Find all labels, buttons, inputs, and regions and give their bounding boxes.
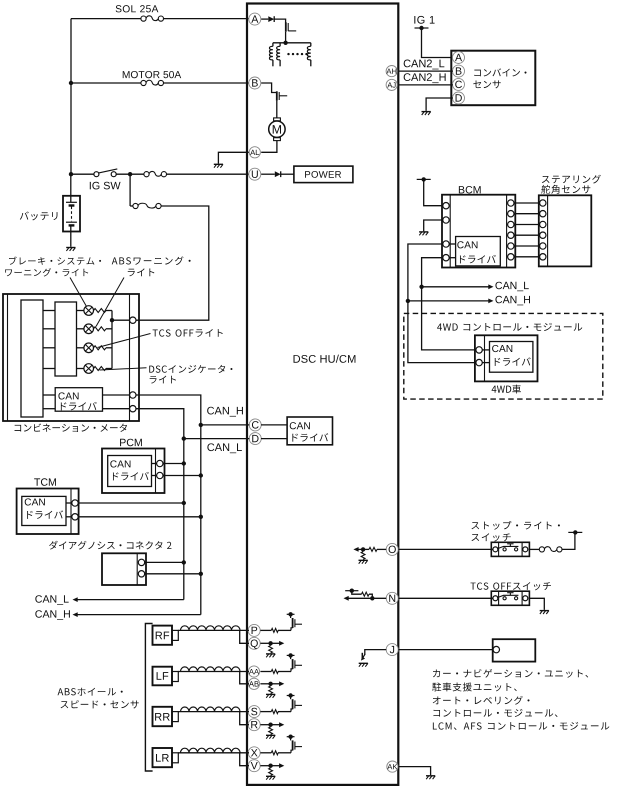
wire coil return RR bbox=[240, 712, 249, 725]
wire AK to ground bbox=[398, 767, 430, 776]
wire meter CANH stub bbox=[43, 394, 55, 396]
wire TCM driver stubs bbox=[66, 502, 72, 504]
label CAN (U2) bbox=[290, 422, 310, 429]
label CAN (TCM) bbox=[25, 498, 45, 505]
label LF bbox=[157, 672, 169, 680]
arrow CAN_L exit bbox=[73, 597, 78, 602]
ground LF bias bbox=[266, 693, 275, 695]
wire fuse to power bbox=[562, 533, 575, 549]
wire lamp feed bbox=[43, 347, 55, 349]
fuse MOTOR 50A bbox=[141, 80, 146, 85]
wire CAN_H exit bbox=[76, 614, 201, 616]
label CAN bbox=[58, 392, 78, 399]
label RF bbox=[156, 632, 169, 640]
label IG SW bbox=[90, 182, 121, 190]
wire BCM to steering sensor 6 bbox=[514, 256, 539, 258]
leader brake light bbox=[70, 278, 87, 307]
sensor box LF bbox=[153, 667, 173, 686]
junction CANL arrow bbox=[419, 285, 423, 289]
label ワーニング・ライト bbox=[5, 268, 88, 276]
node D bbox=[249, 433, 261, 445]
wire N pull-up to line bbox=[369, 594, 372, 598]
wire SOL 25A feed bbox=[71, 18, 141, 20]
wire C to CAN driver bbox=[261, 424, 287, 426]
node X bbox=[248, 747, 260, 759]
arrow CAN_H exit bbox=[73, 612, 78, 617]
label ドライバ bbox=[61, 402, 97, 410]
wire BCM to steering sensor 2 bbox=[514, 213, 539, 215]
TCM CAN driver box bbox=[22, 496, 66, 525]
node AL bbox=[249, 147, 260, 158]
meter pin CANL bbox=[130, 406, 136, 412]
wire 4WD driver stubs bbox=[483, 349, 490, 351]
steering angle sensor box bbox=[539, 195, 592, 266]
wire CAN_H arrow right bbox=[408, 300, 489, 302]
junction LR return bbox=[268, 764, 272, 768]
resistor RF bias bbox=[269, 646, 273, 654]
wire RR input bbox=[260, 711, 271, 713]
wire LF to FET bbox=[278, 671, 291, 673]
ground J driver bbox=[359, 662, 368, 664]
node O bbox=[386, 543, 398, 555]
leader TCS OFF light bbox=[98, 334, 151, 348]
BCM right pin 1 bbox=[508, 200, 514, 206]
label ストップ・ライト・ bbox=[471, 521, 559, 530]
power tap stop light bbox=[568, 531, 582, 533]
DSC HU/CM module box bbox=[247, 4, 398, 785]
resistor LR input bbox=[271, 751, 278, 755]
label ステアリング舵角センサ bbox=[542, 175, 601, 184]
node Q bbox=[248, 637, 260, 649]
wire PCM to CANH bbox=[163, 475, 201, 477]
4WD dashed box bbox=[404, 313, 603, 399]
wire module to lamp bbox=[77, 328, 84, 330]
sensor pin B bbox=[453, 65, 465, 77]
junction LF return bbox=[268, 682, 272, 686]
node B bbox=[249, 77, 261, 89]
steering sensor pin 2 bbox=[540, 211, 546, 217]
resistor O bias bbox=[361, 552, 365, 560]
node AJ bbox=[386, 79, 397, 90]
wire BCM to steering sensor 3 bbox=[514, 224, 539, 226]
BCM right pin 3 bbox=[508, 221, 514, 227]
wire coil base RR bbox=[178, 711, 249, 713]
resistor lamp ABS warning bbox=[94, 327, 107, 331]
meter lamp module box bbox=[55, 302, 77, 376]
wire PCM driver stubs bbox=[152, 463, 157, 465]
label DSC HU/CM bbox=[294, 355, 356, 363]
wire module to lamp bbox=[77, 310, 84, 312]
wire battery to ground bbox=[70, 225, 72, 246]
transistor motor driver FET bbox=[276, 91, 278, 100]
fuse meter IG bbox=[133, 203, 138, 208]
junction CANH at C line bbox=[199, 423, 203, 427]
lamp DSC indicator light bbox=[84, 364, 94, 374]
lamp brake system warning light bbox=[84, 306, 94, 316]
label 4WD車 bbox=[492, 385, 521, 394]
transistor LF driver bbox=[291, 669, 293, 672]
wire CAN_L arrow right bbox=[422, 286, 489, 288]
junction N bbox=[370, 596, 374, 600]
wire BCM CANH down bbox=[408, 244, 476, 363]
wire battery feed bbox=[70, 174, 72, 202]
BCM pin 1 bbox=[443, 203, 449, 209]
wire LF input bbox=[260, 671, 271, 673]
node U bbox=[249, 168, 261, 180]
lamp ABS warning light bbox=[84, 324, 94, 334]
transistor RR driver bbox=[291, 709, 293, 712]
PCM box bbox=[102, 449, 165, 494]
wire coil return LF bbox=[240, 672, 249, 684]
junction CANH arrow bbox=[406, 299, 410, 303]
BCM right pin 6 bbox=[508, 254, 514, 260]
wire lamp common rail bbox=[111, 311, 113, 369]
TCM pin 2 bbox=[72, 514, 78, 520]
label カー・ナビゲーション・ユニット、 bbox=[433, 669, 588, 678]
connector tab RR bbox=[172, 712, 178, 722]
wire FET to motor bbox=[276, 101, 278, 118]
junction PCM CANL bbox=[182, 461, 186, 465]
ground battery bbox=[66, 247, 75, 249]
wire B to motor FET bbox=[261, 83, 276, 93]
wire TCM to CANH bbox=[78, 516, 200, 518]
label PCM bbox=[120, 439, 142, 447]
BCM right pin 4 bbox=[508, 232, 514, 238]
wire node C line bbox=[201, 424, 250, 426]
wire LF return bbox=[260, 683, 270, 685]
inductor pickup coil LF bbox=[181, 667, 241, 672]
wire CAN_H meter to C bbox=[136, 395, 201, 615]
ground O bias bbox=[359, 559, 368, 561]
wire LR to FET bbox=[278, 752, 291, 754]
fuse IG main bbox=[144, 172, 149, 177]
wire CAN2_H bbox=[398, 84, 453, 86]
label ABSワーニング・ bbox=[112, 256, 191, 265]
label RR bbox=[155, 713, 170, 721]
meter pin lamps bbox=[130, 317, 136, 323]
junction on feed at MOTOR line bbox=[69, 81, 73, 85]
label CAN_H bbox=[207, 407, 243, 417]
ground BCM bbox=[419, 231, 428, 233]
resistor RF input bbox=[271, 628, 278, 632]
wire RF to FET bbox=[278, 629, 291, 631]
node S bbox=[248, 706, 260, 718]
label 駐車支援ユニット、 bbox=[432, 682, 517, 691]
node N bbox=[386, 592, 398, 604]
solenoid coil n bbox=[310, 43, 312, 47]
inductor pickup coil RR bbox=[181, 707, 241, 712]
wire module to lamp bbox=[77, 368, 84, 370]
ground TCS OFF switch bbox=[540, 610, 549, 612]
power tap BCM bbox=[417, 178, 431, 180]
steering sensor pin 5 bbox=[540, 243, 546, 249]
PCM pin 2 bbox=[157, 472, 163, 478]
BCM right pin 5 bbox=[508, 243, 514, 249]
wire LR sense arrow bbox=[271, 765, 280, 767]
sensor pin C bbox=[453, 78, 465, 90]
PCM CAN driver box bbox=[108, 456, 152, 487]
wire module to lamp bbox=[77, 347, 84, 349]
wire lamp feed bbox=[43, 328, 55, 330]
node A bbox=[249, 13, 261, 25]
sensor box LR bbox=[153, 748, 173, 767]
wire lamp feed bbox=[43, 310, 55, 312]
resistor LF bias bbox=[269, 686, 273, 694]
ground RR bias bbox=[266, 734, 275, 736]
wire coil base LR bbox=[178, 752, 249, 754]
node AH bbox=[386, 66, 397, 77]
steering sensor pin 1 bbox=[540, 200, 546, 206]
label ブレーキ・システム・ bbox=[9, 257, 101, 265]
label ドライバ (PCM) bbox=[113, 472, 149, 480]
label ドライバ (BCM) bbox=[460, 255, 496, 263]
label ドライバ (U2) bbox=[292, 433, 328, 441]
wire RF sense arrow bbox=[271, 642, 280, 644]
label ダイアグノシス・コネクタ 2 bbox=[49, 541, 171, 550]
BCM pin 4 bbox=[443, 255, 449, 261]
label CAN_L bbox=[207, 443, 241, 453]
wire motor to AL bbox=[261, 141, 277, 153]
label コントロール・モジュール、 bbox=[433, 709, 557, 717]
wire IG SW to fuse bbox=[116, 173, 144, 175]
label CAN_H exit bbox=[35, 610, 70, 620]
battery cell plates bbox=[66, 201, 77, 203]
junction O bias bbox=[361, 547, 365, 551]
wire BCM to ground bbox=[424, 220, 443, 231]
node V bbox=[248, 760, 260, 772]
junction diag CANH bbox=[199, 572, 203, 576]
wire LF sense arrow bbox=[271, 683, 280, 685]
sensor pin A bbox=[453, 52, 465, 64]
POWER box bbox=[294, 166, 353, 183]
wire BCM driver stubs bbox=[449, 243, 455, 245]
meter CAN driver box U1 bbox=[55, 388, 102, 412]
transistor solenoid driver FET bbox=[285, 22, 287, 31]
wire power to BCM bbox=[424, 179, 443, 205]
wire RR return bbox=[260, 724, 270, 726]
label ライト(2) bbox=[150, 376, 176, 384]
wire rail to meter pin bbox=[112, 319, 130, 321]
diode solenoid supply bbox=[268, 16, 274, 22]
node R bbox=[248, 719, 260, 731]
4WD pin 2 bbox=[476, 359, 482, 365]
ellipsis dots more coils bbox=[287, 53, 289, 55]
steering sensor pin 6 bbox=[540, 254, 546, 260]
resistor RR bias bbox=[269, 727, 273, 735]
label CAN (4WD) bbox=[492, 345, 512, 352]
label ABSホイール・ bbox=[58, 688, 123, 696]
switch IG SW bbox=[94, 172, 99, 177]
label POWER bbox=[305, 171, 341, 178]
resistor lamp brake system warning bbox=[94, 309, 107, 313]
junction RR return bbox=[268, 723, 272, 727]
wire switch to fuse bbox=[529, 548, 540, 550]
TCM box bbox=[17, 489, 79, 535]
inductor pickup coil LR bbox=[181, 748, 241, 753]
label BCM bbox=[459, 186, 481, 194]
wire U to diode bbox=[261, 173, 275, 175]
wire coil base LF bbox=[178, 671, 249, 673]
label スピード・センサ bbox=[61, 700, 139, 708]
wire diode to FET bbox=[274, 19, 285, 22]
transistor J driver bbox=[361, 653, 363, 659]
label オート・レベリング・ bbox=[433, 696, 530, 705]
wire lamp feed bbox=[43, 368, 55, 370]
junction IG branch bbox=[128, 172, 132, 176]
combine sensor box bbox=[451, 51, 535, 105]
leader DSC indicator light bbox=[100, 368, 147, 370]
wire BCM CANL down bbox=[422, 258, 476, 350]
wire RF input bbox=[260, 629, 271, 631]
BCM right pin 2 bbox=[508, 211, 514, 217]
fuse stop light bbox=[539, 547, 544, 552]
junction TCM CANH bbox=[199, 515, 203, 519]
node AA bbox=[248, 666, 259, 677]
4WD pin 1 bbox=[476, 347, 482, 353]
ground combine sensor bbox=[422, 111, 431, 113]
label ドライバ (TCM) bbox=[27, 510, 63, 518]
resistor lamp DSC indicator bbox=[94, 367, 107, 371]
steering sensor pin 3 bbox=[540, 221, 546, 227]
label 4WD コントロール・モジュール bbox=[437, 323, 582, 331]
resistor N pull-up bbox=[362, 592, 370, 596]
wire PCM to CANL bbox=[163, 463, 184, 465]
transistor RF driver bbox=[291, 628, 293, 631]
inductor pickup coil RF bbox=[181, 626, 241, 631]
connector tab LR bbox=[172, 753, 178, 763]
wire J to units bbox=[398, 649, 493, 651]
label CAN2_H bbox=[404, 73, 446, 83]
label ライト bbox=[128, 268, 155, 276]
wire solenoid rail bbox=[273, 42, 311, 44]
junction RF return bbox=[268, 641, 272, 645]
wire BCM to steering sensor 4 bbox=[514, 234, 539, 236]
resistor LF input bbox=[271, 670, 278, 674]
wire BCM to steering sensor 1 bbox=[514, 202, 539, 204]
wire node D line bbox=[184, 438, 250, 440]
label コンビネーション・メータ bbox=[15, 423, 127, 431]
ground RF bias bbox=[266, 653, 275, 655]
bracket ABS sensors bbox=[145, 624, 152, 772]
label DSCインジケータ・ bbox=[149, 365, 232, 373]
battery box bbox=[63, 196, 80, 232]
label TCS OFFスイッチ bbox=[470, 582, 550, 590]
wire N to TCS switch bbox=[398, 597, 492, 599]
label SOL 25A bbox=[116, 5, 159, 12]
wire diag to CANH bbox=[145, 573, 201, 575]
transistor LR driver bbox=[291, 750, 293, 753]
wire TCM to CANL bbox=[78, 502, 183, 504]
wire LR return bbox=[260, 765, 270, 767]
resistor lamp TCS OFF bbox=[94, 346, 107, 350]
wire lamp to common bbox=[106, 328, 112, 330]
meter pin CANH bbox=[130, 392, 136, 398]
sensor pin D bbox=[453, 92, 465, 104]
fuse SOL 25A bbox=[141, 16, 146, 21]
label CAN (BCM) bbox=[457, 241, 477, 248]
label MOTOR 50A bbox=[123, 71, 181, 78]
diag pin 1 bbox=[138, 559, 144, 565]
sensor box RF bbox=[153, 626, 173, 645]
4WD module box bbox=[475, 335, 538, 381]
wire main vertical feed bbox=[70, 19, 72, 175]
ground AL bbox=[214, 163, 223, 165]
wire to IG SW bbox=[71, 173, 94, 175]
resistor O input bbox=[369, 547, 377, 551]
wire diag to CANL bbox=[145, 561, 184, 563]
wire TCS switch to ground bbox=[529, 598, 544, 610]
solenoid coil 2 bbox=[279, 43, 281, 47]
label CAN_L right bbox=[495, 282, 528, 292]
switch TCS OFF bbox=[491, 591, 529, 605]
wire FET to coils bbox=[285, 32, 287, 43]
label CAN2_L bbox=[404, 60, 445, 70]
label LCM AFS コントロール・モジュール bbox=[433, 722, 609, 730]
PCM pin 1 bbox=[157, 460, 163, 466]
node J bbox=[386, 644, 398, 656]
wire coil base RF bbox=[178, 629, 249, 631]
steering sensor pin 4 bbox=[540, 232, 546, 238]
wire meter CANL stub bbox=[43, 408, 55, 410]
wire IG1 to sensor bbox=[422, 28, 453, 58]
units box pin bbox=[493, 646, 499, 652]
node AB bbox=[248, 678, 259, 689]
resistor RR input bbox=[271, 710, 278, 714]
label TCM bbox=[34, 478, 56, 486]
motor M bbox=[274, 118, 281, 121]
label battery バッテリ bbox=[20, 211, 58, 220]
units box bbox=[493, 639, 536, 661]
junction lamp rail bbox=[110, 318, 114, 322]
wire J interior bbox=[365, 650, 386, 655]
diagnosis connector box bbox=[102, 553, 146, 585]
label コンバイン・センサ bbox=[474, 68, 526, 76]
label CAN (PCM) bbox=[110, 460, 130, 467]
wire coil return RF bbox=[240, 630, 249, 643]
DSC CAN driver box U2 bbox=[287, 417, 332, 445]
node C bbox=[249, 419, 261, 431]
connector tab RF bbox=[172, 630, 178, 640]
sensor box RR bbox=[153, 707, 173, 726]
ground AK bbox=[426, 775, 435, 777]
BCM box bbox=[442, 195, 515, 268]
lamp TCS OFF light bbox=[84, 343, 94, 353]
label スイッチ bbox=[471, 533, 510, 541]
wire N arrow bbox=[348, 597, 386, 599]
junction diag CANL bbox=[182, 560, 186, 564]
label LR bbox=[156, 754, 169, 762]
wire lamp to common bbox=[106, 310, 112, 312]
node AK bbox=[387, 761, 398, 772]
wire LR input bbox=[260, 752, 271, 754]
wire IG branch to meter bbox=[129, 174, 131, 206]
junction PCM CANH bbox=[199, 473, 203, 477]
junction TCM CANL bbox=[182, 501, 186, 505]
BCM pin 2 bbox=[443, 217, 449, 223]
wire O to stop light switch bbox=[398, 548, 492, 550]
wire fuse to pin U bbox=[167, 173, 250, 175]
label CAN_H right bbox=[495, 296, 530, 306]
wire lamp to common bbox=[106, 347, 112, 349]
wire N pull-up bbox=[352, 591, 362, 595]
diode power supply bbox=[275, 171, 281, 177]
diag pin 2 bbox=[138, 571, 144, 577]
combination meter box bbox=[3, 294, 139, 421]
junction CANL at D line bbox=[182, 436, 186, 440]
wire diode to POWER box bbox=[281, 173, 294, 175]
wire fused IG to meter pin bbox=[136, 206, 209, 320]
resistor LR bias bbox=[269, 768, 273, 776]
